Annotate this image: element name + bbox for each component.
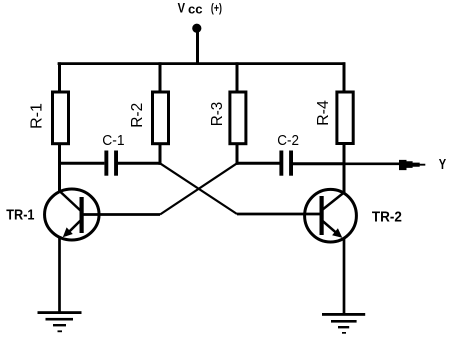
wire C-1 right plate to R-2 bottom node <box>118 162 162 165</box>
wire cross-coupling diagonal R-2 node to TR-2 base <box>160 163 237 214</box>
wire TR-2 emitter to ground <box>343 239 346 315</box>
wire node R-3 to C-2 left plate <box>236 162 280 165</box>
svg-text:R-4: R-4 <box>315 100 332 126</box>
wire TR-1 base horizontal <box>83 213 161 216</box>
ground GND1 <box>38 311 82 332</box>
wire output node to arrowhead <box>344 162 401 165</box>
resistor R1 <box>53 92 69 144</box>
wire R-3 bottom to node <box>236 144 239 165</box>
wire R-4 bottom through node to TR-2 collector <box>343 144 346 195</box>
wire cross-coupling diagonal R-3 node to TR-1 base <box>160 163 237 214</box>
transistor Q TR-2 <box>305 189 357 242</box>
transistor Q TR-1 <box>45 189 100 240</box>
wire bus to R-3 top <box>236 62 239 91</box>
svg-text:TR-1: TR-1 <box>6 207 34 224</box>
output arrowhead <box>399 160 425 170</box>
capacitor C1 <box>104 151 118 176</box>
wire bus to R-2 top <box>159 62 162 91</box>
label Vcc (+) supply <box>178 0 222 16</box>
svg-text:C-1: C-1 <box>102 132 124 149</box>
resistor R2 <box>153 92 169 144</box>
wire R-2 bottom to node <box>159 144 162 165</box>
ground GND2 <box>322 313 365 334</box>
svg-text:C-2: C-2 <box>277 132 299 149</box>
wire bus to R-4 top <box>343 62 346 91</box>
svg-text:R-3: R-3 <box>209 102 226 127</box>
resistor R3 <box>230 92 246 144</box>
svg-text:(+): (+) <box>211 3 222 15</box>
wire bus to R-1 top <box>58 62 61 91</box>
resistor R4 <box>337 92 353 144</box>
svg-text:cc: cc <box>188 1 203 16</box>
wire top supply bus <box>58 62 346 65</box>
wire TR-1 emitter to ground <box>58 238 61 313</box>
node Vcc terminal dot <box>192 24 201 33</box>
svg-text:Y: Y <box>439 156 446 173</box>
svg-text:R-2: R-2 <box>129 103 146 128</box>
svg-text:V: V <box>178 0 185 15</box>
svg-text:R-1: R-1 <box>29 103 46 129</box>
svg-text:TR-2: TR-2 <box>372 208 402 225</box>
wire C-2 right plate to R-4 bottom node <box>293 162 346 165</box>
capacitor C2 <box>279 151 293 176</box>
wire node R-1 to C-1 left plate <box>58 162 104 165</box>
wire Vcc dot to top bus <box>196 28 199 65</box>
wire R-1 bottom to TR-1 collector (through node with C-1 line) <box>58 144 61 193</box>
wire TR-2 base horizontal <box>237 213 321 216</box>
